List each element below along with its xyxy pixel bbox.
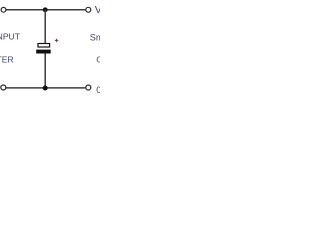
wire vertical lower [44,54,46,88]
terminal circle top-left [1,7,6,12]
capacitor C1 polarity + [55,39,58,42]
svg-text:0: 0 [96,85,100,95]
terminal circle bottom-left [1,85,6,90]
svg-text:TER: TER [0,55,14,65]
terminal circle top-right [86,7,91,12]
svg-text:C: C [96,55,100,65]
svg-text:Sm: Sm [90,32,100,42]
wire vertical upper [44,10,46,44]
node junction bottom [43,86,48,91]
svg-text:NPUT: NPUT [0,32,21,42]
capacitor C1 positive plate [38,44,50,48]
wire top rail [6,9,86,11]
terminal circle bottom-right [86,85,91,90]
node junction top [43,7,48,12]
wire bottom rail [6,87,86,89]
capacitor C1 negative plate [36,50,51,54]
svg-text:V: V [95,4,100,16]
